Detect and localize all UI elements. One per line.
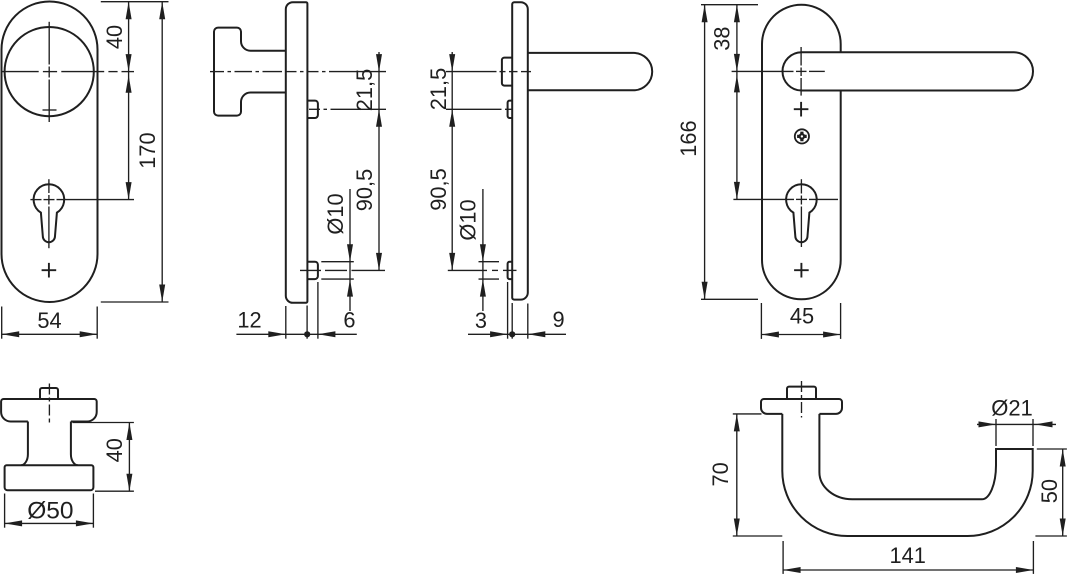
view 2: bottom extension lines <box>285 306 287 339</box>
view 1: knob short-plate outline (54x170) <box>2 2 98 303</box>
svg-text:Ø10: Ø10 <box>323 193 348 234</box>
svg-text:12: 12 <box>237 308 261 333</box>
view 4: width extension lines <box>760 303 762 339</box>
view 6: end height extension lines (50) <box>1037 448 1067 450</box>
svg-text:21,5: 21,5 <box>426 68 451 110</box>
view 5: height extension lines <box>73 422 134 424</box>
svg-text:38: 38 <box>710 26 735 50</box>
view 6: length extension lines (141) <box>782 541 784 574</box>
view 4: euro hole horizontal centerline / ext <box>733 198 794 200</box>
view 1: rose horizontal centerline / ext for 40 <box>1 71 39 73</box>
view 1: dimension line 40 and unlabeled segment <box>128 2 130 200</box>
view 2: lower boss centerline <box>300 269 321 271</box>
view 3: lower boss centerline <box>448 269 487 271</box>
view 3: boss diameter extension lines <box>479 261 500 263</box>
svg-text:54: 54 <box>37 308 61 333</box>
view 6: lever U-shaped grip <box>782 414 1032 536</box>
view 3: dimension line diam 10 <box>482 189 484 311</box>
svg-text:Ø10: Ø10 <box>456 199 481 240</box>
view 3: bottom extension lines <box>507 282 509 339</box>
view 4: fixing screw <box>795 129 809 143</box>
view 2: upper fixing boss <box>307 101 318 118</box>
view 4: euro profile cylinder hole <box>786 184 817 242</box>
view 4: dimension line 45 <box>761 334 840 336</box>
view 2: upper boss centerline <box>309 108 320 110</box>
view 3: upper boss centerline <box>446 108 502 110</box>
view 6: lever rose flange <box>761 399 842 414</box>
svg-text:Ø50: Ø50 <box>27 498 73 525</box>
svg-text:90,5: 90,5 <box>352 169 377 211</box>
svg-text:70: 70 <box>708 462 733 486</box>
view 3: lever axis centerline <box>446 71 497 73</box>
view 1: euro hole horizontal centerline / ext <box>30 199 41 201</box>
view 2: dimension column 21,5 / 90,5 <box>378 52 380 270</box>
view 6: height extension lines (70) <box>733 413 762 415</box>
view 4: lever handle <box>782 52 1033 90</box>
view 6: lever spindle square <box>787 387 816 399</box>
svg-text:90,5: 90,5 <box>426 168 451 210</box>
view 2: knob axis centerline <box>210 71 224 73</box>
view 4: rose horizontal centerline / ext for 38 <box>732 70 794 72</box>
view 2: dimension line 12 / 6 <box>236 333 356 335</box>
view 4: dimension line 38 and unlabeled segment <box>736 5 738 200</box>
view 5: knob axis centerline <box>48 384 50 425</box>
view 4: lever plate outline (45x166) <box>762 5 841 300</box>
view 1: euro hole vertical centerline <box>48 179 50 193</box>
view 1: dimension line 54 <box>2 333 98 335</box>
view 1: euro profile cylinder hole <box>34 184 65 242</box>
view 1: knob rose circle <box>5 27 94 116</box>
view 2: dimension line diam 10 <box>349 189 351 311</box>
view 1: dimension line 170 <box>161 2 163 302</box>
svg-text:166: 166 <box>676 120 701 156</box>
view 2: plate side outline (12 thick) <box>286 2 308 303</box>
view 4: rose vertical centerline <box>800 47 802 66</box>
svg-text:50: 50 <box>1037 479 1062 503</box>
view 6: dimension line 141 <box>783 569 1033 571</box>
view 1: small tick on centerline <box>43 109 57 111</box>
view 6: grip diameter extension lines <box>995 419 997 446</box>
view 3: dimension column 21,5 / 90,5 <box>451 52 453 270</box>
view 6: dimension line 70 <box>736 414 738 536</box>
view 5: dimension line diam 50 <box>5 522 94 524</box>
view 5: dimension line 40 <box>128 423 130 492</box>
view 6: lever axis centerline <box>801 381 803 418</box>
svg-text:170: 170 <box>135 132 160 168</box>
view 4: upper screw cross <box>794 102 809 117</box>
view 5: diameter extension lines <box>4 494 6 528</box>
svg-text:3: 3 <box>475 308 487 333</box>
view 4: dimension line 166 <box>704 5 706 300</box>
svg-text:40: 40 <box>102 438 127 462</box>
view 1: lower screw cross <box>42 263 57 278</box>
view 2: boss diameter extension lines <box>321 261 354 263</box>
view 1: width extension lines <box>1 307 3 339</box>
view 1: bottom extension line <box>101 301 169 303</box>
view 5: knob rose flange <box>1 399 97 422</box>
view 3: upper fixing boss <box>508 101 513 118</box>
view 4: euro hole vertical centerline <box>800 179 802 193</box>
view 5: knob neck with fillets <box>21 422 78 466</box>
view 2: knob profile <box>214 28 286 116</box>
view 4: lower screw cross <box>794 263 809 278</box>
view 5: knob spindle square <box>40 388 58 399</box>
svg-text:21,5: 21,5 <box>352 69 377 111</box>
view 4: bottom extension line <box>701 298 758 300</box>
view 5: knob head (diam 50) <box>5 465 94 490</box>
view 4: top extension line <box>701 4 758 6</box>
view 3: lever grip side profile <box>528 53 652 90</box>
view 1: rose vertical centerline <box>48 22 50 65</box>
view 6: dimension line diam 21 <box>977 423 1056 425</box>
svg-text:9: 9 <box>552 307 564 332</box>
view 6: dimension line 50 <box>1062 449 1064 536</box>
view 1: top extension line <box>101 1 169 3</box>
view 3: plate side outline (9 thick) <box>512 2 528 299</box>
view 3: dimension line 3 / 9 <box>468 333 566 335</box>
view 2: lower fixing boss <box>307 262 318 279</box>
svg-text:40: 40 <box>102 25 127 49</box>
svg-text:141: 141 <box>890 543 926 568</box>
svg-text:6: 6 <box>343 308 355 333</box>
svg-text:45: 45 <box>790 304 814 329</box>
view 3: lower fixing boss <box>508 262 513 279</box>
view 3: spindle square <box>502 58 513 86</box>
svg-text:Ø21: Ø21 <box>991 396 1033 421</box>
